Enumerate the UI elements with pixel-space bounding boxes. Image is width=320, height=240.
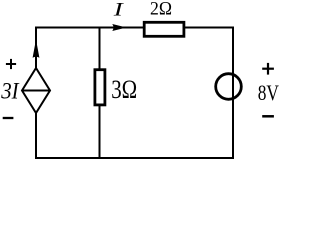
current arrow I on top wire (rightward) <box>112 24 126 31</box>
independent voltage source 8V (circle) <box>216 74 242 100</box>
wire middle branch <box>99 27 101 160</box>
svg-text:3Ω: 3Ω <box>111 75 137 104</box>
dependent voltage source 3I (diamond) <box>22 68 50 113</box>
resistor 2ohm body <box>144 22 184 36</box>
resistor 3ohm body <box>95 70 105 105</box>
label - (dependent source polarity) <box>3 117 14 119</box>
wire right branch <box>232 27 234 160</box>
label + (dependent source polarity) <box>6 59 16 69</box>
label - (8V polarity) <box>262 115 274 118</box>
svg-text:2Ω: 2Ω <box>150 0 172 20</box>
svg-text:I: I <box>112 0 125 21</box>
current arrow on left branch (upward) <box>33 40 40 58</box>
wire left branch <box>35 27 37 160</box>
label + (8V polarity) <box>262 63 274 75</box>
svg-text:8V: 8V <box>258 80 279 105</box>
wire bottom (reference node) <box>35 157 234 159</box>
svg-text:3I: 3I <box>0 79 20 104</box>
wire top (node between sources and 2ohm) <box>35 27 234 29</box>
